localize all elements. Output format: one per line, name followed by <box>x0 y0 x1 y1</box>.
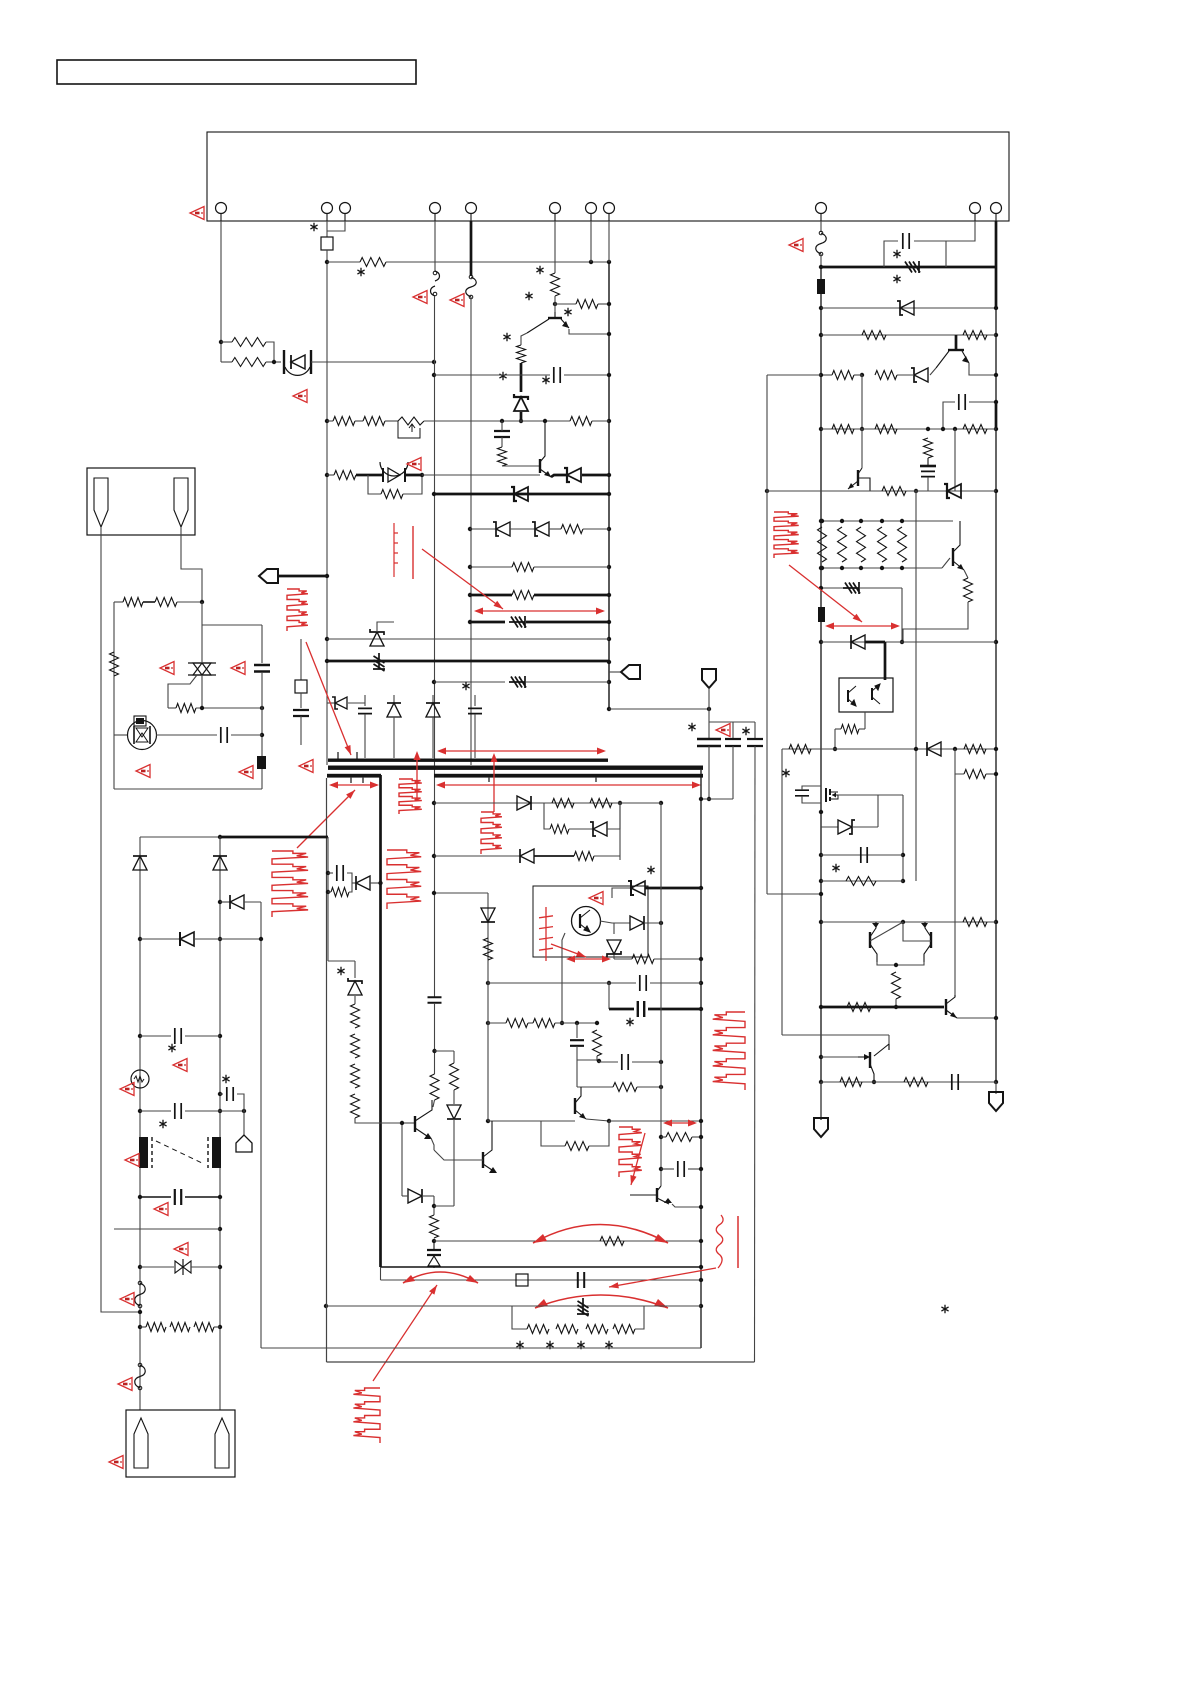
transistor <box>869 1052 871 1068</box>
wire cap branch <box>884 241 898 267</box>
junction <box>699 1304 703 1308</box>
wire <box>576 1023 578 1038</box>
wire <box>576 1060 578 1087</box>
zener diode <box>607 940 621 954</box>
resistor <box>841 725 859 734</box>
wire row 1036 <box>185 1035 220 1037</box>
wire <box>470 528 496 530</box>
junction <box>218 1092 222 1096</box>
junction <box>819 1005 823 1009</box>
wire <box>355 420 363 422</box>
asterisk <box>337 967 344 975</box>
wire stub <box>393 695 395 703</box>
wire <box>820 1082 822 1120</box>
junction <box>699 1205 703 1209</box>
junction <box>138 1310 142 1314</box>
wire row 639 <box>327 638 609 640</box>
capacitor <box>903 233 909 249</box>
circuit breaker <box>431 271 440 296</box>
resistor <box>360 258 386 267</box>
wire base <box>930 368 936 375</box>
warning symbol <box>299 760 313 773</box>
wire row 983 <box>488 982 636 984</box>
resistor <box>533 1019 555 1028</box>
junction <box>607 260 611 264</box>
wire row 1023 <box>555 1022 597 1024</box>
wire <box>802 796 821 803</box>
asterisk <box>832 864 839 872</box>
wire loop <box>403 475 422 494</box>
junction <box>138 1034 142 1038</box>
wire <box>221 341 232 343</box>
zener diode <box>838 820 852 834</box>
wire <box>708 746 710 799</box>
diode <box>426 703 440 717</box>
junction <box>589 260 593 264</box>
surge arrester diode <box>284 350 311 374</box>
resistor <box>517 345 526 363</box>
wire row 595 <box>534 594 609 597</box>
wire <box>692 1136 701 1138</box>
junction <box>860 427 864 431</box>
zener diode <box>535 522 549 536</box>
wire inner box bottom <box>261 1347 701 1349</box>
zener diode <box>370 632 384 646</box>
wire <box>352 882 356 884</box>
chassis bus bar <box>327 774 381 778</box>
annotation arrow <box>416 754 418 800</box>
wire row 888 <box>645 887 701 890</box>
wire <box>661 1136 666 1138</box>
wire loop <box>589 1121 609 1146</box>
transient suppressor diode <box>509 616 526 628</box>
resistor <box>565 1142 589 1151</box>
wire <box>995 1082 997 1094</box>
resistor <box>527 1325 549 1334</box>
wire <box>555 303 576 305</box>
connector pin <box>340 203 351 214</box>
wire <box>261 769 263 789</box>
resistor <box>506 1019 528 1028</box>
wire <box>326 221 328 237</box>
wire row 661 <box>327 660 609 663</box>
wire row 1280 <box>381 1279 702 1281</box>
wire <box>114 601 123 603</box>
resistor <box>552 799 574 808</box>
diode <box>387 703 401 717</box>
wire pin1 drop <box>220 221 222 362</box>
waveform annotation <box>713 1012 745 1090</box>
wire <box>327 474 334 476</box>
resistor <box>381 490 403 499</box>
capacitor <box>638 1001 644 1017</box>
wire <box>168 707 176 709</box>
junction <box>218 937 222 941</box>
wire loop <box>541 1121 565 1146</box>
jumper <box>321 237 333 250</box>
speaker box <box>126 1410 235 1477</box>
wire <box>834 729 836 749</box>
zener diode <box>514 397 528 411</box>
junction <box>553 302 557 306</box>
wire <box>534 855 574 857</box>
wire <box>914 241 946 267</box>
junction <box>819 853 823 857</box>
hybrid regulator IC <box>839 678 893 712</box>
main PCB connector box <box>207 132 1009 221</box>
junction <box>819 566 823 570</box>
wire stub <box>474 714 476 758</box>
wire row 1267 <box>381 1266 702 1268</box>
junction <box>543 419 547 423</box>
junction <box>914 747 918 751</box>
capacitor <box>622 1054 628 1070</box>
opto LED body <box>134 716 146 726</box>
wire bank bottom rail <box>821 567 942 569</box>
wire <box>901 588 903 642</box>
junction <box>607 527 611 531</box>
warning symbol <box>120 1083 134 1096</box>
junction <box>560 1021 564 1025</box>
wire left rail x327 <box>326 250 328 765</box>
wire <box>600 921 630 923</box>
junction <box>659 1085 663 1089</box>
junction <box>819 333 823 337</box>
wire <box>201 602 203 662</box>
junction <box>325 574 329 578</box>
wire <box>957 1017 996 1019</box>
junction <box>840 566 844 570</box>
wire <box>859 728 865 730</box>
warning symbol <box>109 1456 123 1469</box>
junction <box>218 835 222 839</box>
wire <box>754 722 756 739</box>
wire into regulator <box>884 642 887 680</box>
asterisk <box>577 1341 584 1349</box>
capacitor <box>640 975 646 991</box>
junction <box>607 565 611 569</box>
warning symbol <box>716 724 730 737</box>
asterisk <box>310 223 317 231</box>
resistor <box>146 1323 166 1332</box>
junction <box>914 489 918 493</box>
speaker cone <box>174 478 188 527</box>
junction <box>699 1239 703 1243</box>
junction <box>219 340 223 344</box>
wire <box>370 882 381 884</box>
junction <box>994 920 998 924</box>
junction <box>699 1135 703 1139</box>
wire <box>520 363 523 392</box>
wire <box>521 420 570 422</box>
wire <box>385 420 398 422</box>
junction <box>575 1021 579 1025</box>
wire <box>586 1119 609 1121</box>
wire <box>986 773 996 775</box>
wire <box>327 702 334 704</box>
wire <box>564 374 609 376</box>
junction <box>819 306 823 310</box>
annotation arc <box>535 1295 668 1308</box>
junction <box>218 1195 222 1199</box>
fuse <box>466 277 477 297</box>
transistor <box>945 999 947 1015</box>
asterisk <box>159 1120 166 1128</box>
junction <box>400 1121 404 1125</box>
wire center rail x434 mid <box>434 1003 436 1074</box>
junction <box>597 1059 601 1063</box>
asterisk <box>893 275 900 283</box>
wire row 803 <box>434 802 661 804</box>
annotation arrow <box>568 958 609 960</box>
fuse <box>816 233 827 254</box>
wire <box>592 420 609 422</box>
junction <box>218 1227 222 1231</box>
connector pin <box>991 203 1002 214</box>
capacitor <box>795 790 809 796</box>
wire to Q8 base <box>355 1118 402 1123</box>
junction <box>859 519 863 523</box>
wire base <box>942 558 950 568</box>
junction <box>138 1265 142 1269</box>
capacitor <box>175 1103 181 1119</box>
opto isolator outline <box>533 886 648 957</box>
wire row 622 <box>470 621 505 624</box>
warning symbol <box>239 766 253 779</box>
wire <box>380 1267 382 1280</box>
junction <box>468 620 472 624</box>
junction <box>486 1119 490 1123</box>
wire row 1306 <box>326 1305 701 1307</box>
asterisk <box>525 292 532 300</box>
wire <box>520 412 523 421</box>
resistor <box>964 770 986 779</box>
wire stub <box>432 717 434 758</box>
zener diode <box>335 697 347 709</box>
resistor <box>964 745 986 754</box>
wire <box>927 477 929 491</box>
wire rail x661 <box>660 803 662 1186</box>
waveform annotation <box>399 779 422 814</box>
wire emitter rail <box>877 962 924 965</box>
asterisk <box>357 268 364 276</box>
junction <box>324 1304 328 1308</box>
resistor <box>586 1325 608 1334</box>
junction <box>707 797 711 801</box>
capacitor <box>697 739 721 746</box>
junction <box>819 586 823 590</box>
wire collector <box>861 429 863 468</box>
wire link x620 <box>619 803 621 860</box>
junction <box>659 1167 663 1171</box>
junction <box>607 332 611 336</box>
wire <box>327 420 333 422</box>
fuse <box>135 1283 146 1306</box>
resistor <box>512 563 534 572</box>
transistor <box>847 690 849 702</box>
wire stub <box>432 695 434 703</box>
bus tick <box>338 752 357 759</box>
wire rail x955 <box>954 774 956 997</box>
wire row 602 <box>177 601 202 603</box>
diode <box>927 742 941 756</box>
wire row 1087 <box>637 1086 661 1088</box>
wire <box>534 566 609 568</box>
wire <box>300 693 302 708</box>
annotation arrow <box>439 750 604 752</box>
junction <box>519 419 523 423</box>
speaker cone <box>134 1418 148 1468</box>
annotation pointer <box>609 1268 716 1287</box>
title block <box>57 60 416 84</box>
wire <box>140 1196 171 1198</box>
wire <box>156 734 217 736</box>
wire <box>470 594 512 597</box>
wire rail x114 <box>113 602 115 789</box>
wire row 1062 <box>632 1061 661 1063</box>
wire row 881 <box>821 880 903 882</box>
junction <box>860 373 864 377</box>
resistor <box>551 273 560 296</box>
wire row 267 <box>821 266 996 269</box>
warning symbol <box>173 1059 187 1072</box>
wire <box>577 1086 613 1088</box>
wire <box>402 1195 408 1197</box>
resistor <box>334 471 356 480</box>
junction <box>953 427 957 431</box>
junction <box>138 1195 142 1199</box>
resistor <box>484 938 493 960</box>
resistor <box>110 652 119 676</box>
junction <box>486 981 490 985</box>
resistor <box>838 527 847 562</box>
field-effect transistor <box>826 788 830 802</box>
speaker box <box>87 468 195 535</box>
resistor <box>450 1063 459 1090</box>
zener diode <box>496 522 510 536</box>
junction <box>994 400 998 404</box>
wire <box>202 624 262 626</box>
connector pin <box>466 203 477 214</box>
zener diode <box>593 822 607 836</box>
wire emitter <box>969 363 996 375</box>
junction <box>900 566 904 570</box>
wire <box>644 922 661 924</box>
wire <box>854 374 862 376</box>
wire <box>852 826 878 828</box>
speaker cone <box>215 1418 229 1468</box>
junction <box>260 733 264 737</box>
wire row 837 <box>140 836 220 838</box>
junction <box>819 373 823 377</box>
junction <box>378 881 382 885</box>
wire <box>577 1059 599 1061</box>
wire rail x767 <box>766 375 768 894</box>
zener diode <box>900 301 914 315</box>
potentiometer <box>398 417 424 425</box>
wire rail x609 <box>608 262 610 709</box>
wire <box>434 1205 454 1207</box>
junction <box>468 565 472 569</box>
resistor <box>963 425 987 434</box>
component body <box>136 718 144 724</box>
junction <box>326 871 330 875</box>
resistor <box>613 1083 637 1092</box>
transistor <box>857 470 859 486</box>
transient suppressor diode <box>509 676 526 688</box>
warning symbol <box>190 207 204 220</box>
wire <box>708 709 710 739</box>
wire rail x326 <box>326 778 328 1362</box>
wire <box>821 587 843 589</box>
junction <box>218 1325 222 1329</box>
junction <box>607 373 611 377</box>
resistor <box>666 1133 692 1142</box>
wire row 1229 <box>114 1228 220 1230</box>
wire row 1197 <box>185 1196 220 1198</box>
annotation arrow <box>827 625 898 627</box>
wire <box>648 1008 701 1011</box>
connector pin <box>430 203 441 214</box>
asterisk <box>499 372 506 380</box>
waveform annotation <box>387 850 421 909</box>
junction <box>432 492 436 496</box>
transistor <box>414 1116 416 1132</box>
wire <box>969 401 996 403</box>
zener diode <box>914 368 928 382</box>
wire <box>897 374 914 376</box>
junction <box>325 659 329 663</box>
junction <box>218 1265 222 1269</box>
junction <box>819 265 823 269</box>
wire <box>328 891 331 893</box>
wire pin drop <box>946 221 975 241</box>
fusible resistor <box>817 279 825 294</box>
resistor <box>590 799 612 808</box>
capacitor <box>468 708 482 713</box>
connector flag <box>814 1118 828 1137</box>
surge arrester <box>175 1261 191 1273</box>
wire gate <box>168 675 197 708</box>
warning symbol <box>413 291 427 304</box>
diode <box>408 1189 422 1203</box>
wire <box>672 1204 701 1207</box>
wire thick rail x380 <box>379 775 382 1267</box>
junction <box>486 1021 490 1025</box>
wire row 1111 <box>185 1110 220 1112</box>
transistor <box>930 932 932 948</box>
wire <box>569 828 592 830</box>
annotation arrow <box>665 1122 695 1124</box>
wire <box>220 1093 223 1095</box>
resistor <box>964 578 973 602</box>
asterisk <box>516 1341 523 1349</box>
wire rail x328 <box>327 837 329 961</box>
junction <box>259 937 263 941</box>
wire <box>140 1326 146 1328</box>
wire row 375 <box>434 374 550 376</box>
resistor <box>430 1074 439 1100</box>
wire loop <box>544 803 550 829</box>
junction <box>432 891 436 895</box>
junction <box>618 801 622 805</box>
resistor <box>574 852 594 861</box>
junction <box>138 937 142 941</box>
junction <box>218 1034 222 1038</box>
wire row 789 <box>114 788 262 790</box>
diode <box>520 849 534 863</box>
resistor <box>600 1237 624 1246</box>
